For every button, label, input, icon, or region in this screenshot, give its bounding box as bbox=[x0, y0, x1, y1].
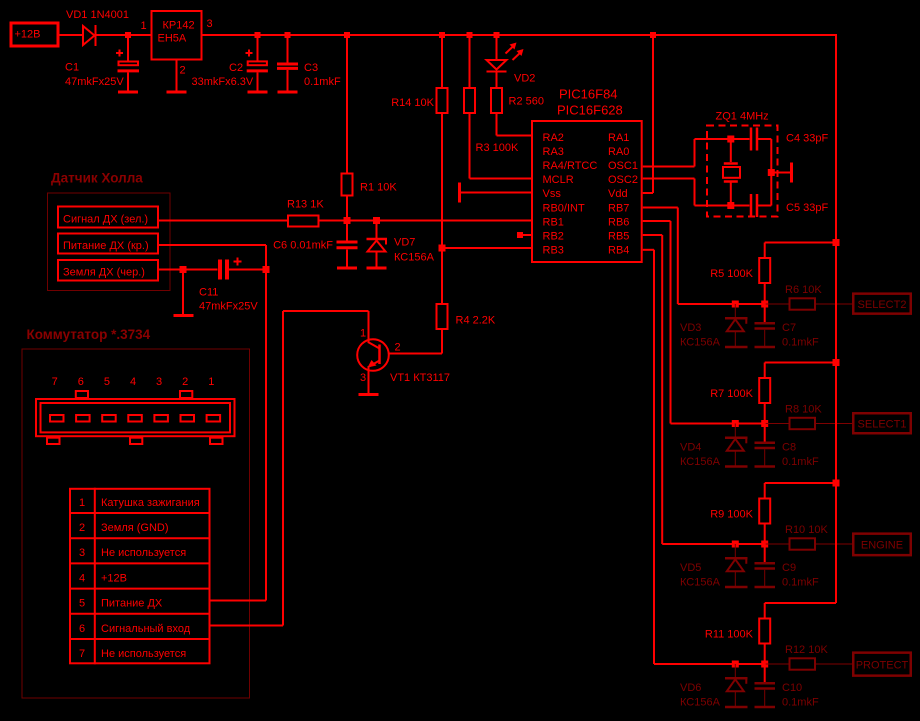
svg-text:C5 33pF: C5 33pF bbox=[786, 202, 828, 214]
node junction C10 on PROTECT row bbox=[761, 661, 768, 668]
svg-text:VD1 1N4001: VD1 1N4001 bbox=[66, 9, 129, 21]
svg-text:C11: C11 bbox=[199, 287, 218, 299]
wire Vdd pin to +5V rail bbox=[652, 35, 654, 193]
table row divider 6 bbox=[69, 638, 211, 640]
node open stub at RB2 pin bbox=[517, 232, 523, 238]
table row divider 4 bbox=[69, 588, 211, 590]
svg-text:КС156А: КС156А bbox=[680, 577, 721, 589]
node junction C3 on +5V rail bbox=[285, 32, 291, 38]
svg-text:Катушка зажигания: Катушка зажигания bbox=[101, 497, 200, 509]
box dashed crystal block ZQ1 bbox=[707, 126, 778, 217]
svg-text:VT1 КТ3117: VT1 КТ3117 bbox=[390, 372, 450, 384]
svg-text:RA2: RA2 bbox=[543, 132, 564, 144]
svg-text:RB7: RB7 bbox=[608, 202, 629, 214]
zener diode VD3 KC156A bbox=[734, 304, 736, 317]
box Hall sensor outline bbox=[48, 193, 171, 291]
polarity + of C1 bbox=[116, 52, 123, 54]
capacitor C9 0.1mkF bbox=[764, 544, 766, 562]
capacitor C7 0.1mkF bbox=[764, 304, 766, 322]
node PROTECT output terminal bbox=[853, 653, 911, 676]
svg-text:R2 560: R2 560 bbox=[509, 96, 544, 108]
svg-text:ENGINE: ENGINE bbox=[861, 540, 903, 552]
wire R8 to SELECT1 box bbox=[816, 423, 852, 425]
wire R6 to SELECT2 box bbox=[816, 303, 852, 305]
wire connector pin 5 to hall power bbox=[211, 600, 267, 602]
wire junction down to R4 bbox=[441, 248, 443, 303]
node junction C6 on RB1 wire bbox=[344, 217, 351, 224]
capacitor C8 0.1mkF bbox=[764, 424, 766, 442]
zener diode VD5 KC156A bbox=[734, 544, 736, 557]
svg-text:R5 100K: R5 100K bbox=[710, 268, 753, 280]
svg-text:КР142: КР142 bbox=[163, 20, 195, 32]
svg-text:4: 4 bbox=[79, 572, 85, 584]
node junction crystal bottom bbox=[727, 202, 734, 209]
node junction RB3 R14 R4 bbox=[439, 245, 446, 252]
wire ENGINE row bbox=[662, 543, 766, 545]
svg-text:R9 100K: R9 100K bbox=[710, 508, 753, 520]
wire Vss pin to ground bbox=[460, 192, 532, 194]
node junction C8 on SELECT1 row bbox=[761, 420, 768, 427]
wire SELECT1 row bbox=[671, 423, 766, 425]
wire pull-up R5 top to +5V rail bbox=[765, 242, 836, 244]
node junction VD3 on SELECT2 row bbox=[732, 301, 739, 308]
wire emitter VT1 to ground bbox=[368, 366, 370, 393]
svg-text:1: 1 bbox=[141, 20, 147, 32]
svg-text:SELECT2: SELECT2 bbox=[858, 299, 907, 311]
box commutator outline bbox=[22, 349, 250, 698]
svg-text:КС156А: КС156А bbox=[680, 697, 721, 709]
ground below C3 bbox=[278, 91, 298, 94]
connector slot 7 bbox=[50, 415, 64, 422]
svg-text:47mkFx25V: 47mkFx25V bbox=[65, 76, 124, 88]
svg-text:RB1: RB1 bbox=[543, 216, 564, 228]
svg-text:1: 1 bbox=[208, 376, 214, 388]
svg-text:PIC16F84: PIC16F84 bbox=[559, 87, 618, 102]
wire pull-up R7 top to +5V rail bbox=[765, 362, 836, 364]
svg-text:0.1mkF: 0.1mkF bbox=[304, 76, 341, 88]
wire crystal right side bbox=[770, 139, 772, 206]
node junction VD7 on RB1 wire bbox=[373, 217, 380, 224]
svg-text:R3 100K: R3 100K bbox=[476, 142, 519, 154]
node SELECT1 output terminal bbox=[853, 413, 911, 433]
svg-text:C7: C7 bbox=[782, 322, 796, 334]
wire hall power down to connector pin 5 bbox=[159, 244, 266, 246]
svg-text:RB3: RB3 bbox=[543, 244, 564, 256]
capacitor C1 47mkFx25V bbox=[127, 35, 129, 61]
svg-text:0.1mkF: 0.1mkF bbox=[782, 337, 819, 349]
table row divider 3 bbox=[69, 562, 211, 564]
wire R2 to RA2 pin bbox=[496, 114, 498, 136]
wire row to R12 bbox=[766, 663, 789, 665]
wire pull-up R11 top to +5V rail bbox=[765, 602, 836, 604]
node junction R5 rail repaint bbox=[833, 239, 840, 246]
svg-text:0.1mkF: 0.1mkF bbox=[782, 697, 819, 709]
wire R1 to RB1 node bbox=[346, 197, 348, 221]
svg-text:Земля (GND): Земля (GND) bbox=[101, 522, 169, 534]
capacitor C4 33pF bbox=[731, 138, 750, 140]
svg-text:RA1: RA1 bbox=[608, 132, 629, 144]
ground below VT1 bbox=[359, 393, 379, 396]
svg-text:2: 2 bbox=[395, 342, 401, 354]
resistor R3 100K bbox=[464, 88, 475, 113]
svg-text:6: 6 bbox=[79, 623, 85, 635]
node junction VD5 on ENGINE row bbox=[732, 541, 739, 548]
svg-text:Не используется: Не используется bbox=[101, 648, 186, 660]
polarity + of C11 bbox=[234, 261, 242, 263]
svg-text:RB0/INT: RB0/INT bbox=[543, 202, 585, 214]
node junction C7 on SELECT2 row bbox=[761, 301, 768, 308]
svg-text:C2: C2 bbox=[229, 62, 243, 74]
node junction C2 on +5V rail bbox=[255, 32, 261, 38]
capacitor C3 0.1mkF bbox=[287, 35, 289, 63]
resistor R13 1K bbox=[288, 216, 319, 227]
voltage regulator U KP142EH5A bbox=[152, 11, 202, 60]
connector slot 1 bbox=[207, 415, 221, 422]
wire row to R10 bbox=[766, 543, 789, 545]
svg-text:1: 1 bbox=[360, 328, 366, 340]
wire R14 to RB3 node bbox=[441, 114, 443, 248]
wire R4 to transistor base bbox=[441, 330, 443, 354]
svg-text:OSC1: OSC1 bbox=[608, 160, 638, 172]
svg-text:2: 2 bbox=[180, 65, 186, 77]
connector slot 5 bbox=[102, 415, 116, 422]
svg-text:ЕН5А: ЕН5А bbox=[158, 33, 187, 45]
resistor R4 2.2K bbox=[437, 304, 448, 329]
wire RB3 pin to R4 node bbox=[442, 247, 531, 249]
table row divider 2 bbox=[69, 537, 211, 539]
svg-text:VD3: VD3 bbox=[680, 322, 701, 334]
resistor R7 100K bbox=[764, 363, 766, 378]
svg-text:R14 10K: R14 10K bbox=[391, 97, 434, 109]
svg-text:Питание ДХ: Питание ДХ bbox=[101, 598, 163, 610]
node SELECT2 output terminal bbox=[853, 294, 911, 314]
svg-text:Не используется: Не используется bbox=[101, 547, 186, 559]
wire diode to regulator pin 1 bbox=[96, 34, 151, 36]
svg-text:RA0: RA0 bbox=[608, 146, 629, 158]
svg-text:Земля ДХ (чер.): Земля ДХ (чер.) bbox=[63, 267, 145, 279]
node junction R1 top on +5V rail bbox=[344, 32, 350, 38]
svg-text:6: 6 bbox=[78, 376, 84, 388]
svg-text:ZQ1 4MHz: ZQ1 4MHz bbox=[716, 111, 769, 123]
svg-text:Vss: Vss bbox=[543, 188, 562, 200]
svg-text:C9: C9 bbox=[782, 562, 796, 574]
svg-text:R1 10K: R1 10K bbox=[360, 182, 397, 194]
node junction crystal top bbox=[727, 136, 734, 143]
node junction R14 top on +5V rail bbox=[439, 32, 445, 38]
node junction R5 on +5V rail bbox=[833, 239, 840, 246]
wire +5V vertical rail right side bbox=[835, 34, 837, 603]
node junction R9 rail repaint bbox=[833, 480, 840, 487]
resistor R2 560 bbox=[491, 88, 502, 113]
crystal ZQ1 bbox=[730, 139, 732, 162]
resistor R10 10K bbox=[790, 538, 816, 549]
wire OSC2 to crystal bbox=[643, 178, 695, 180]
capacitor C2 33mkFx6.3V bbox=[257, 35, 259, 61]
node junction C1 on +12V rail bbox=[125, 32, 131, 38]
wire +5V rail from regulator pin 3 bbox=[203, 34, 837, 36]
ground below regulator pin 2 bbox=[167, 91, 187, 94]
wire LED to R2 bbox=[496, 72, 498, 88]
resistor R12 10K bbox=[790, 658, 816, 669]
resistor R5 100K bbox=[764, 243, 766, 258]
resistor R11 100K bbox=[764, 603, 766, 618]
svg-text:5: 5 bbox=[104, 376, 110, 388]
diode VD1 1N4001 bbox=[83, 26, 95, 45]
connector top tab right bbox=[180, 391, 192, 398]
ground bar at crystal bbox=[790, 163, 793, 183]
svg-text:5: 5 bbox=[79, 598, 85, 610]
wire SELECT2 row bbox=[678, 303, 766, 305]
connector bottom tab 2 bbox=[130, 438, 142, 444]
svg-text:VD5: VD5 bbox=[680, 562, 701, 574]
LED VD2 bbox=[487, 60, 507, 70]
svg-text:PROTECT: PROTECT bbox=[856, 659, 909, 671]
svg-text:C3: C3 bbox=[304, 62, 318, 74]
svg-text:VD7: VD7 bbox=[394, 237, 415, 249]
wire RB7 to SELECT2 row bbox=[643, 207, 678, 209]
resistor R9 100K bbox=[764, 483, 766, 498]
wire hall ground to ground symbol bbox=[182, 270, 184, 315]
svg-text:2: 2 bbox=[79, 522, 85, 534]
svg-text:VD2: VD2 bbox=[514, 73, 535, 85]
terminal Power DX red bbox=[58, 234, 158, 254]
terminal Ground DX black bbox=[58, 260, 158, 281]
svg-text:OSC2: OSC2 bbox=[608, 174, 638, 186]
wire collector to connector pin 6 bbox=[283, 310, 369, 312]
capacitor C6 0.01mkF bbox=[346, 221, 348, 241]
polarity + of C2 bbox=[246, 52, 253, 54]
node junction crystal ground tap bbox=[768, 169, 775, 176]
svg-text:33mkFx6.3V: 33mkFx6.3V bbox=[192, 76, 254, 88]
svg-text:C1: C1 bbox=[65, 62, 79, 74]
node junction hall power and C11 bbox=[263, 266, 270, 273]
wire R10 to ENGINE box bbox=[816, 543, 852, 545]
wire RB6 to SELECT1 row bbox=[643, 220, 671, 222]
svg-text:КС156А: КС156А bbox=[680, 456, 721, 468]
svg-text:R11 100K: R11 100K bbox=[705, 628, 754, 640]
table row divider 1 bbox=[69, 512, 211, 514]
node junction C9 on ENGINE row bbox=[761, 541, 768, 548]
svg-text:C6 0.01mkF: C6 0.01mkF bbox=[273, 240, 333, 252]
svg-text:2: 2 bbox=[182, 376, 188, 388]
connector slot 2 bbox=[181, 415, 195, 422]
connector body inner bbox=[41, 403, 231, 432]
connector slot 3 bbox=[154, 415, 168, 422]
svg-text:47mkFx25V: 47mkFx25V bbox=[199, 301, 258, 313]
ground below C10 bbox=[755, 706, 776, 709]
ground below hall ground bbox=[174, 314, 194, 317]
svg-text:7: 7 bbox=[52, 376, 58, 388]
ground below VD4 bbox=[725, 465, 748, 468]
wire R13 to RB1 pin bbox=[320, 220, 532, 222]
ground below C9 bbox=[755, 586, 776, 589]
svg-text:R10 10K: R10 10K bbox=[785, 524, 828, 536]
table row divider 5 bbox=[69, 613, 211, 615]
svg-text:C10: C10 bbox=[782, 682, 802, 694]
capacitor C10 0.1mkF bbox=[764, 664, 766, 682]
svg-text:RA3: RA3 bbox=[543, 146, 564, 158]
svg-text:C8: C8 bbox=[782, 441, 796, 453]
svg-text:VD6: VD6 bbox=[680, 682, 701, 694]
wire RB4 to PROTECT row bbox=[643, 249, 654, 251]
capacitor C5 33pF bbox=[731, 205, 750, 207]
wire +5V rail to LED VD2 bbox=[496, 35, 498, 60]
connector bottom tab 1 bbox=[47, 438, 60, 444]
wire +5V rail to R14 bbox=[441, 35, 443, 87]
svg-text:+12В: +12В bbox=[101, 572, 127, 584]
ground below VD6 bbox=[725, 706, 748, 709]
node junction R3 top on +5V rail bbox=[467, 32, 473, 38]
svg-text:VD4: VD4 bbox=[680, 441, 701, 453]
wire +5V rail to R1 bbox=[346, 35, 348, 173]
ground symbol at Vss pin bbox=[458, 183, 461, 203]
IC U1 PIC16F84 / PIC16F628 bbox=[532, 121, 642, 262]
svg-text:RB4: RB4 bbox=[608, 244, 629, 256]
svg-text:Коммутатор *.3734: Коммутатор *.3734 bbox=[27, 327, 151, 342]
svg-text:R7 100K: R7 100K bbox=[710, 388, 753, 400]
svg-text:RA4/RTCC: RA4/RTCC bbox=[543, 160, 598, 172]
wire row to R6 bbox=[766, 303, 789, 305]
connector body outer bbox=[36, 399, 235, 436]
svg-text:3: 3 bbox=[360, 372, 366, 384]
connector top tab left bbox=[76, 391, 88, 398]
node junction VD2 top on +5V rail bbox=[494, 32, 500, 38]
connector bottom tab 3 bbox=[210, 438, 223, 444]
ground below C7 bbox=[755, 346, 776, 349]
svg-text:RB2: RB2 bbox=[543, 230, 564, 242]
wire +5V rail to R3 bbox=[469, 35, 471, 87]
LED VD2 emission arrow 2 bbox=[513, 52, 522, 60]
node junction VD6 on PROTECT row bbox=[732, 661, 739, 668]
svg-text:Сигнальный вход: Сигнальный вход bbox=[101, 623, 191, 635]
svg-text:Сигнал ДХ (зел.): Сигнал ДХ (зел.) bbox=[63, 214, 148, 226]
zener diode VD6 KC156A bbox=[734, 664, 736, 677]
svg-text:3: 3 bbox=[156, 376, 162, 388]
svg-text:MCLR: MCLR bbox=[543, 174, 574, 186]
svg-text:3: 3 bbox=[79, 547, 85, 559]
resistor R8 10K bbox=[790, 418, 816, 429]
wire R12 to PROTECT box bbox=[816, 663, 852, 665]
svg-text:R13 1K: R13 1K bbox=[287, 199, 324, 211]
wire pull-up R9 top to +5V rail bbox=[765, 482, 836, 484]
wire to crystal ground bbox=[771, 172, 790, 174]
ground below C2 bbox=[248, 91, 268, 94]
ground below VD7 bbox=[367, 267, 387, 270]
svg-text:R4 2.2K: R4 2.2K bbox=[456, 315, 496, 327]
LED VD2 emission arrow 1 bbox=[506, 46, 515, 54]
svg-text:7: 7 bbox=[79, 648, 85, 660]
wire collector VT1 up bbox=[368, 311, 370, 343]
node ENGINE output terminal bbox=[853, 534, 911, 556]
resistor R14 10K bbox=[437, 88, 448, 113]
ground below VD5 bbox=[725, 586, 748, 589]
wire RB5 to ENGINE row bbox=[643, 234, 663, 236]
svg-text:R12 10K: R12 10K bbox=[785, 644, 828, 656]
node junction Vdd on +5V rail bbox=[650, 32, 656, 38]
wire OSC1 to crystal bbox=[643, 166, 695, 168]
wire +12V to diode VD1 bbox=[60, 34, 84, 36]
node junction R7 rail repaint bbox=[833, 359, 840, 366]
svg-text:RB5: RB5 bbox=[608, 230, 629, 242]
node junction VD4 on SELECT1 row bbox=[732, 420, 739, 427]
node +12V input terminal bbox=[11, 23, 58, 46]
svg-text:1: 1 bbox=[79, 497, 85, 509]
ground below C6 bbox=[337, 267, 357, 270]
svg-text:+12В: +12В bbox=[15, 29, 41, 41]
node junction hall ground and C11 bbox=[180, 266, 187, 273]
wire connector pin 6 to VT1 collector bbox=[211, 625, 284, 627]
svg-text:4: 4 bbox=[130, 376, 136, 388]
svg-text:КС156А: КС156А bbox=[394, 252, 435, 264]
svg-text:PIC16F628: PIC16F628 bbox=[557, 103, 623, 118]
svg-text:C4 33pF: C4 33pF bbox=[786, 133, 828, 145]
svg-text:RB6: RB6 bbox=[608, 216, 629, 228]
svg-text:SELECT1: SELECT1 bbox=[858, 419, 907, 431]
zener diode VD7 KC156A bbox=[376, 221, 378, 239]
resistor R1 10K bbox=[342, 174, 353, 196]
node junction R9 on +5V rail bbox=[833, 480, 840, 487]
svg-text:R8 10K: R8 10K bbox=[785, 404, 822, 416]
wire PROTECT row bbox=[654, 663, 766, 665]
svg-text:R6 10K: R6 10K bbox=[785, 284, 822, 296]
connector slot 6 bbox=[76, 415, 90, 422]
wire hall signal to R13 bbox=[159, 220, 287, 222]
svg-text:Питание ДХ (кр.): Питание ДХ (кр.) bbox=[63, 240, 149, 252]
wire R3 to MCLR pin bbox=[469, 114, 471, 179]
wire row to R8 bbox=[766, 423, 789, 425]
svg-text:Датчик Холла: Датчик Холла bbox=[51, 171, 143, 186]
wire regulator pin 2 to ground bbox=[176, 61, 178, 91]
svg-text:КС156А: КС156А bbox=[680, 337, 721, 349]
zener diode VD4 KC156A bbox=[734, 424, 736, 437]
ground below C1 bbox=[118, 91, 138, 94]
table connector pinout bbox=[70, 489, 210, 664]
connector slot 4 bbox=[128, 415, 142, 422]
svg-text:Vdd: Vdd bbox=[608, 188, 628, 200]
transistor VT1 KT3117 bbox=[357, 339, 389, 371]
resistor R6 10K bbox=[790, 298, 816, 309]
node junction R7 on +5V rail bbox=[833, 359, 840, 366]
capacitor C11 47mkFx25V bbox=[218, 260, 222, 280]
svg-text:3: 3 bbox=[207, 18, 213, 30]
svg-text:0.1mkF: 0.1mkF bbox=[782, 456, 819, 468]
ground below VD3 bbox=[725, 346, 748, 349]
svg-text:0.1mkF: 0.1mkF bbox=[782, 577, 819, 589]
terminal Signal DX green bbox=[58, 207, 158, 228]
ground below C8 bbox=[755, 465, 776, 468]
wire hall ground bbox=[159, 269, 218, 271]
